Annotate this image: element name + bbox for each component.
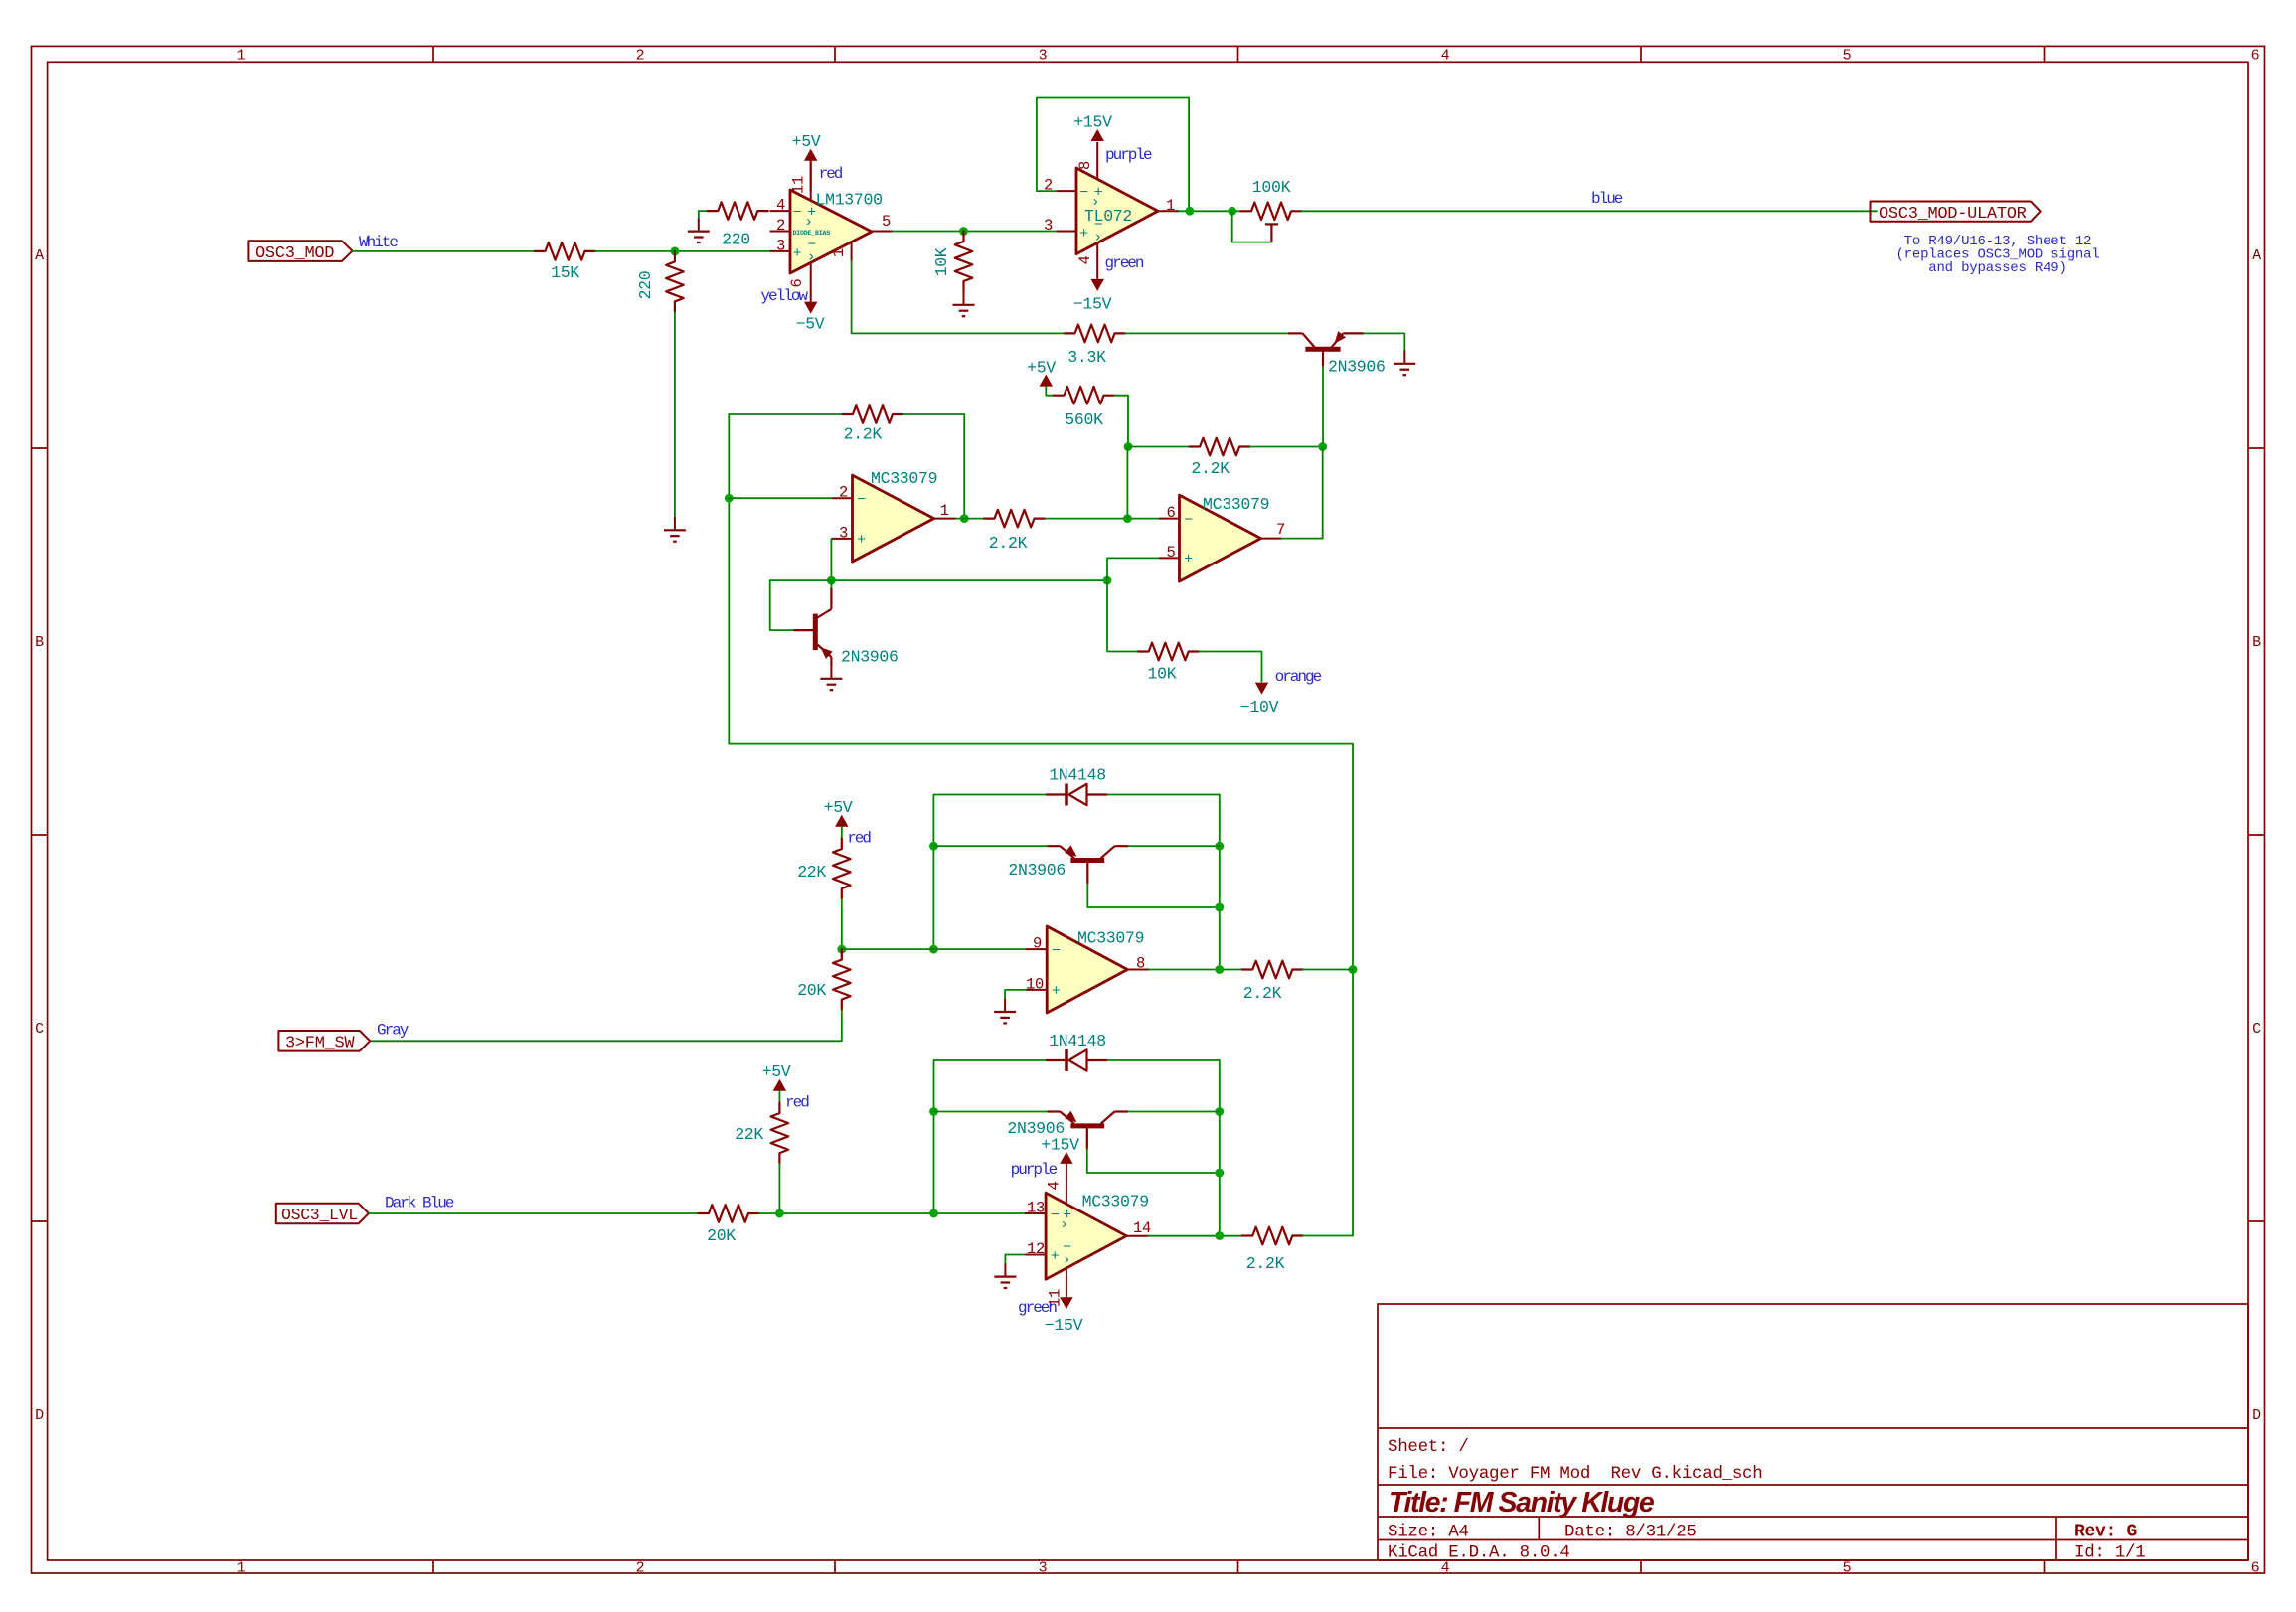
TL072 name bbox=[1084, 207, 1132, 226]
ground at Q1 emitter bbox=[1394, 351, 1415, 376]
svg-text:›: › bbox=[1060, 1216, 1068, 1233]
wire LM13700 pin1 down bbox=[852, 261, 1065, 334]
svg-text:3>FM_SW: 3>FM_SW bbox=[285, 1034, 355, 1052]
svg-text:8: 8 bbox=[1136, 955, 1145, 973]
net label green a bbox=[1105, 254, 1144, 272]
svg-text:+: + bbox=[1184, 552, 1193, 568]
svg-text:B: B bbox=[35, 634, 44, 651]
resistor R3.3K bbox=[1065, 325, 1125, 343]
wire R20Kb to junction bbox=[759, 1212, 1027, 1214]
svg-text:3: 3 bbox=[1039, 1560, 1048, 1577]
svg-text:220: 220 bbox=[722, 231, 750, 249]
wire U2B pin5 riser bbox=[1107, 558, 1159, 580]
svg-text:1: 1 bbox=[940, 502, 949, 520]
node junction 560K-2.2K bbox=[1124, 442, 1133, 451]
svg-text:1N4148: 1N4148 bbox=[1049, 766, 1106, 785]
svg-text:+: + bbox=[1052, 983, 1061, 1000]
svg-text:8: 8 bbox=[1076, 161, 1094, 170]
U3A pin stubs bbox=[1026, 949, 1149, 990]
resistor R10K vertical bbox=[955, 232, 973, 292]
svg-text:blue: blue bbox=[1591, 190, 1623, 208]
svg-text:−: − bbox=[1051, 1207, 1060, 1223]
svg-text:and bypasses R49): and bypasses R49) bbox=[1928, 260, 2066, 276]
svg-text:Dark Blue: Dark Blue bbox=[385, 1195, 454, 1212]
wire Q1 emitter to ground bbox=[1364, 333, 1404, 350]
svg-text:10K: 10K bbox=[1147, 664, 1176, 683]
power +15V at U3B pin4 bbox=[1060, 1152, 1072, 1204]
wire D2 right riser bbox=[1219, 1060, 1221, 1236]
svg-text:2: 2 bbox=[776, 217, 785, 235]
power -15V at TL072 pin4 bbox=[1091, 279, 1104, 291]
wire +5V to R560K bbox=[1046, 387, 1054, 396]
U2B input marks bbox=[1184, 512, 1193, 568]
ground at Q2 emitter bbox=[820, 666, 842, 691]
svg-text:15K: 15K bbox=[551, 263, 579, 282]
U2B name bbox=[1203, 495, 1269, 514]
TL072 pin stubs bbox=[1057, 142, 1179, 279]
svg-text:+5V: +5V bbox=[1027, 359, 1056, 378]
U3B pin stubs bbox=[1025, 1213, 1148, 1297]
wire D1 row bbox=[933, 794, 1219, 796]
resistor R2.2Ka bbox=[843, 405, 903, 423]
svg-text:green: green bbox=[1018, 1299, 1057, 1317]
net label purple a bbox=[1105, 146, 1152, 164]
op-amp U1 TL072 body bbox=[1076, 168, 1158, 254]
wire pin3 row right bbox=[831, 579, 1107, 581]
svg-text:3: 3 bbox=[776, 237, 785, 254]
ground at U3B pin12 bbox=[994, 1263, 1016, 1288]
net label Gray bbox=[377, 1022, 410, 1040]
power +5V at 22Kb bbox=[773, 1079, 786, 1091]
wire R22Ka to junction bbox=[841, 899, 843, 950]
node junction right column bbox=[1349, 965, 1358, 974]
wire bottom feedback rail bbox=[729, 744, 1353, 1236]
svg-text:20K: 20K bbox=[707, 1226, 736, 1245]
svg-text:3: 3 bbox=[1039, 48, 1048, 65]
wire Q1 base down bbox=[1322, 367, 1324, 447]
wire R2.2Kc to U2B pin6 bbox=[1045, 518, 1159, 520]
U2A pin stubs bbox=[832, 498, 956, 539]
power +5V at 560K bbox=[1040, 375, 1053, 387]
wire R560K to junction bbox=[1114, 396, 1128, 447]
node junction Q4 emitter row L bbox=[929, 1107, 938, 1116]
svg-text:C: C bbox=[2252, 1021, 2261, 1038]
svg-text:+15V: +15V bbox=[1073, 112, 1112, 131]
ground at U3A pin10 bbox=[994, 999, 1016, 1024]
node junction at 10K tap bbox=[959, 227, 968, 236]
node junction at 220 tap bbox=[671, 247, 680, 256]
wire +5V to R22Kb bbox=[778, 1091, 780, 1103]
svg-text:MC33079: MC33079 bbox=[1082, 1193, 1149, 1211]
svg-text:11: 11 bbox=[790, 176, 808, 194]
node junction Q3 emitter row R bbox=[1215, 842, 1224, 851]
op-amp U3B MC33079 body bbox=[1046, 1193, 1126, 1279]
value 20Kb bbox=[707, 1226, 736, 1245]
svg-text:+: + bbox=[1051, 1248, 1060, 1265]
resistor R220 vertical bbox=[666, 251, 684, 312]
net label Dark Blue bbox=[385, 1195, 454, 1212]
svg-text:7: 7 bbox=[1276, 521, 1285, 539]
svg-text:−5V: −5V bbox=[796, 315, 825, 334]
wire Q2 collector up bbox=[830, 580, 832, 588]
wire U3A pin10 to ground bbox=[1005, 990, 1026, 999]
svg-text:+5V: +5V bbox=[792, 132, 821, 151]
transistor Q4 2N3906 bbox=[1048, 1111, 1128, 1150]
wire mid column up bbox=[1126, 447, 1128, 519]
svg-text:orange: orange bbox=[1275, 668, 1322, 686]
svg-text:D: D bbox=[35, 1407, 44, 1424]
power label +5V b bbox=[1027, 359, 1056, 378]
svg-text:2: 2 bbox=[636, 48, 645, 65]
frame row letters bbox=[35, 247, 2261, 1424]
U2A input marks bbox=[857, 492, 866, 550]
title block kicad text bbox=[1388, 1543, 1570, 1563]
wire Q4 emitter row bbox=[934, 1111, 1220, 1113]
wire R2.2Kb to Q1 base column bbox=[1250, 446, 1323, 448]
power label +15V b bbox=[1041, 1136, 1079, 1155]
wire U2B output to column bbox=[1282, 538, 1323, 540]
wire junction to R2.2Kb bbox=[1128, 446, 1190, 448]
svg-text:red: red bbox=[819, 165, 843, 183]
svg-text:red: red bbox=[785, 1094, 809, 1112]
U3B name bbox=[1082, 1193, 1149, 1211]
value 560K bbox=[1065, 410, 1103, 429]
net label red b bbox=[847, 830, 871, 848]
svg-text:MC33079: MC33079 bbox=[1077, 929, 1144, 948]
wire D1 left riser bbox=[932, 795, 934, 950]
svg-text:2N3906: 2N3906 bbox=[1328, 358, 1386, 377]
value 2.2Kd bbox=[1243, 984, 1282, 1003]
title block file text bbox=[1388, 1464, 1762, 1484]
node junction U2A output bbox=[960, 514, 969, 523]
svg-text:A: A bbox=[2252, 247, 2261, 264]
Q2 name 2N3906 bbox=[841, 648, 899, 667]
transistor Q2 2N3906 bbox=[793, 588, 832, 666]
node junction pin13 row bbox=[929, 1209, 938, 1218]
title text FM Sanity Kluge bbox=[1389, 1487, 1655, 1519]
svg-text:−: − bbox=[857, 492, 866, 509]
svg-text:1N4148: 1N4148 bbox=[1049, 1032, 1106, 1050]
ground below R10K bbox=[953, 292, 975, 317]
svg-text:MC33079: MC33079 bbox=[1203, 495, 1269, 514]
svg-text:2.2K: 2.2K bbox=[1191, 459, 1230, 478]
node junction 22Kb bbox=[775, 1209, 784, 1218]
svg-text:yellow: yellow bbox=[760, 287, 808, 305]
power -15V at U3B pin11 bbox=[1060, 1297, 1072, 1309]
title block date text bbox=[1564, 1523, 1697, 1542]
svg-text:White: White bbox=[359, 234, 398, 251]
wire R2.2Ke to column bbox=[1303, 1235, 1353, 1237]
wire TL072 feedback loop bbox=[1037, 98, 1189, 212]
svg-text:20K: 20K bbox=[797, 981, 826, 1000]
hierarchical label OSC3_MOD-ULATOR bbox=[1871, 202, 2041, 224]
net label red a bbox=[819, 165, 843, 183]
svg-text:22K: 22K bbox=[797, 863, 826, 882]
op-amp U2B MC33079 body bbox=[1180, 495, 1261, 581]
wire ground to R220b bbox=[699, 210, 708, 212]
svg-text:9: 9 bbox=[1033, 935, 1042, 953]
svg-text:5: 5 bbox=[1166, 544, 1175, 562]
svg-text:›: › bbox=[807, 249, 816, 266]
U3B pin numbers bbox=[1027, 1181, 1151, 1307]
svg-text:+5V: +5V bbox=[762, 1062, 791, 1081]
potentiometer R100K bbox=[1241, 203, 1302, 242]
svg-text:220: 220 bbox=[636, 271, 655, 300]
U3B input/power marks bbox=[1051, 1207, 1071, 1268]
svg-text:5: 5 bbox=[1843, 1560, 1852, 1577]
svg-text:2: 2 bbox=[839, 484, 848, 502]
net label purple b bbox=[1011, 1161, 1058, 1179]
svg-text:OSC3_MOD: OSC3_MOD bbox=[255, 244, 334, 263]
power -5V at LM13700 pin6 bbox=[804, 302, 817, 314]
node junction U2A pin2 bbox=[725, 494, 734, 503]
value 2.2Ke bbox=[1246, 1254, 1285, 1273]
svg-text:3: 3 bbox=[839, 524, 848, 542]
node junction U2B pin5 tap bbox=[1103, 576, 1112, 585]
U2A name bbox=[871, 469, 937, 488]
power label +5V a bbox=[792, 132, 821, 151]
svg-text:MC33079: MC33079 bbox=[871, 469, 937, 488]
power label -15V b bbox=[1045, 1316, 1083, 1335]
svg-text:6: 6 bbox=[2251, 1560, 2260, 1577]
wire Q3 base row bbox=[1087, 884, 1220, 907]
node junction U3B out bbox=[1215, 1231, 1224, 1240]
node junction U3A out bbox=[1215, 965, 1224, 974]
power label +15V a bbox=[1073, 112, 1112, 131]
wire U2A out to R2.2Kc bbox=[956, 518, 984, 520]
net label White bbox=[359, 234, 398, 251]
wire junction to U2A pin2 bbox=[729, 497, 832, 499]
LM13700 DIODE_BIAS text bbox=[793, 230, 831, 237]
svg-text:2N3906: 2N3906 bbox=[1008, 861, 1066, 880]
value 20Ka bbox=[797, 981, 826, 1000]
wire R2.2Kd to column bbox=[1303, 969, 1353, 971]
value 2.2Kc bbox=[989, 534, 1028, 553]
value 15K bbox=[551, 263, 579, 282]
Q4 name 2N3906 bbox=[1007, 1119, 1065, 1138]
svg-text:−: − bbox=[1079, 185, 1088, 202]
node junction pin9 row bbox=[929, 945, 938, 954]
svg-text:›: › bbox=[1063, 1251, 1071, 1268]
svg-text:D: D bbox=[2252, 1407, 2261, 1424]
resistor R22Kb bbox=[771, 1103, 789, 1164]
value 10Kb bbox=[1147, 664, 1176, 683]
wire R15K to LM13700 pin3 bbox=[595, 250, 770, 252]
value 2.2Ka bbox=[844, 425, 883, 444]
resistor R2.2Kb bbox=[1190, 438, 1250, 456]
svg-text:KiCad E.D.A. 8.0.4: KiCad E.D.A. 8.0.4 bbox=[1388, 1543, 1570, 1563]
wire OSC3_MOD to R15K bbox=[353, 250, 536, 252]
svg-text:Gray: Gray bbox=[377, 1022, 410, 1040]
U3A pin numbers bbox=[1026, 935, 1145, 994]
node junction Q4 base bbox=[1215, 1169, 1224, 1178]
svg-text:5: 5 bbox=[1843, 48, 1852, 65]
wire pin5 tap down bbox=[1107, 580, 1138, 651]
LM13700 pin stubs bbox=[770, 161, 893, 302]
D2 name 1N4148 bbox=[1049, 1032, 1106, 1050]
svg-text:14: 14 bbox=[1133, 1219, 1151, 1237]
wire top feedback row bbox=[729, 413, 842, 415]
value 22Ka bbox=[797, 863, 826, 882]
svg-text:560K: 560K bbox=[1065, 410, 1103, 429]
svg-text:2: 2 bbox=[636, 1560, 645, 1577]
svg-text:purple: purple bbox=[1011, 1161, 1058, 1179]
LM13700 pin numbers bbox=[776, 176, 891, 288]
node junction mid column bbox=[1123, 514, 1132, 523]
wire R2.2Ka to output column bbox=[903, 414, 965, 519]
wire pin3 row left bbox=[770, 579, 832, 581]
value 220b bbox=[722, 231, 750, 249]
svg-text:−: − bbox=[1184, 512, 1193, 529]
wire R20Ka to FM_SW bbox=[370, 1010, 842, 1041]
svg-text:−15V: −15V bbox=[1045, 1316, 1083, 1335]
svg-text:−: − bbox=[1052, 942, 1061, 959]
svg-text:−10V: −10V bbox=[1240, 698, 1279, 717]
power label +5V d bbox=[762, 1062, 791, 1081]
LM13700 name bbox=[816, 191, 883, 210]
power label -10V bbox=[1240, 698, 1279, 717]
resistor R20Ka bbox=[833, 949, 851, 1010]
svg-text:2.2K: 2.2K bbox=[1246, 1254, 1285, 1273]
U2A pin numbers bbox=[839, 484, 949, 543]
wire pin9 row bbox=[842, 948, 1026, 950]
svg-text:1: 1 bbox=[237, 48, 246, 65]
wire Q3 emitter row bbox=[933, 845, 1219, 847]
value 220 vertical bbox=[636, 271, 655, 300]
hierarchical label OSC3_MOD bbox=[248, 241, 352, 262]
wire U3A output bbox=[1149, 969, 1242, 971]
value 22Kb bbox=[735, 1125, 763, 1144]
svg-text:2.2K: 2.2K bbox=[989, 534, 1028, 553]
note text sheet12 bbox=[1895, 234, 2099, 276]
svg-text:Rev: G: Rev: G bbox=[2074, 1523, 2137, 1542]
wire +5V to R22Ka bbox=[841, 827, 843, 839]
net label orange bbox=[1275, 668, 1322, 686]
net label red c bbox=[785, 1094, 809, 1112]
power label -5V bbox=[796, 315, 825, 334]
svg-text:5: 5 bbox=[882, 213, 891, 231]
svg-text:10K: 10K bbox=[932, 247, 951, 276]
node junction 22K-20K bbox=[837, 945, 846, 954]
U2B pin numbers bbox=[1166, 504, 1285, 562]
power label -15V a bbox=[1073, 295, 1112, 314]
LM13700 input/power marks bbox=[793, 205, 817, 266]
op-amp U2A MC33079 body bbox=[853, 475, 934, 562]
net label green b bbox=[1018, 1299, 1057, 1317]
svg-text:3.3K: 3.3K bbox=[1067, 348, 1106, 367]
wire D2 row bbox=[934, 1059, 1220, 1061]
svg-text:4: 4 bbox=[1046, 1181, 1064, 1190]
svg-text:›: › bbox=[1093, 230, 1102, 246]
svg-text:+5V: +5V bbox=[824, 798, 853, 817]
svg-text:+15V: +15V bbox=[1041, 1136, 1079, 1155]
hierarchical label OSC3_LVL bbox=[276, 1204, 369, 1224]
U2B pin stubs bbox=[1159, 519, 1282, 559]
svg-text:10: 10 bbox=[1026, 975, 1044, 993]
wire TL072 output bbox=[1179, 210, 1240, 212]
svg-text:100K: 100K bbox=[1252, 178, 1291, 197]
Q1 name 2N3906 bbox=[1328, 358, 1386, 377]
resistor R20Kb bbox=[699, 1205, 759, 1222]
svg-text:−: − bbox=[793, 205, 802, 222]
svg-text:B: B bbox=[2252, 634, 2261, 651]
net label blue bbox=[1591, 190, 1623, 208]
wire LM13700 pin5 to TL072 pin3 bbox=[893, 231, 1057, 233]
Q3 name 2N3906 bbox=[1008, 861, 1066, 880]
hierarchical label 3>FM_SW bbox=[278, 1031, 370, 1052]
svg-text:2.2K: 2.2K bbox=[844, 425, 883, 444]
svg-text:4: 4 bbox=[776, 197, 785, 215]
resistor R22Ka bbox=[833, 839, 851, 899]
value 3.3K bbox=[1067, 348, 1106, 367]
value 100K bbox=[1252, 178, 1291, 197]
svg-text:red: red bbox=[847, 830, 871, 848]
node junction Q3 emitter row L bbox=[929, 842, 938, 851]
title block size text bbox=[1388, 1523, 1469, 1542]
op-amp U-LM13700 body bbox=[790, 190, 872, 273]
ground at R220b input bbox=[688, 211, 710, 242]
svg-text:OSC3_LVL: OSC3_LVL bbox=[281, 1206, 358, 1224]
node junction pin3 row bbox=[827, 576, 836, 585]
node junction feedback bbox=[1186, 207, 1195, 216]
svg-text:1: 1 bbox=[237, 1560, 246, 1577]
title block id text bbox=[2074, 1543, 2145, 1563]
svg-text:purple: purple bbox=[1105, 146, 1152, 164]
TL072 pin numbers bbox=[1044, 161, 1175, 265]
svg-text:Title: FM Sanity Kluge: Title: FM Sanity Kluge bbox=[1389, 1487, 1655, 1519]
svg-text:4: 4 bbox=[1076, 255, 1094, 264]
wire D1 right riser bbox=[1219, 795, 1221, 970]
wire U2A feedback column bbox=[728, 414, 730, 744]
diode D1 1N4148 bbox=[1046, 784, 1107, 806]
svg-text:green: green bbox=[1105, 254, 1144, 272]
power +5V at 22K bbox=[835, 815, 848, 827]
wire U3B pin12 to ground bbox=[1005, 1255, 1025, 1264]
node junction Q4 emitter row R bbox=[1215, 1107, 1224, 1116]
U3A name bbox=[1077, 929, 1144, 948]
node junction Q3 base bbox=[1215, 903, 1224, 912]
wire OSC3_LVL to R20Kb bbox=[369, 1212, 699, 1214]
svg-text:LM13700: LM13700 bbox=[816, 191, 883, 210]
svg-text:12: 12 bbox=[1027, 1240, 1045, 1258]
value 10K vertical bbox=[932, 247, 951, 276]
wire R220 to ground bbox=[674, 312, 676, 517]
power +15V at TL072 pin8 bbox=[1091, 129, 1104, 141]
title block outline bbox=[1378, 1304, 2248, 1560]
wire pot wiper loop bbox=[1232, 211, 1272, 242]
wire Q4 base row bbox=[1087, 1149, 1220, 1173]
net label yellow bbox=[760, 287, 808, 305]
resistor R2.2Kc bbox=[984, 510, 1045, 528]
svg-text:+: + bbox=[1079, 226, 1088, 242]
wire R3.3K to Q1 base bbox=[1125, 332, 1288, 334]
wire R10Kb to -10V bbox=[1199, 652, 1261, 682]
node junction Q1 base bbox=[1318, 442, 1327, 451]
svg-text:+: + bbox=[857, 532, 866, 549]
svg-text:Size: A4: Size: A4 bbox=[1388, 1523, 1469, 1542]
svg-text:−15V: −15V bbox=[1073, 295, 1112, 314]
svg-text:File: Voyager FM Mod Rev G.ki: File: Voyager FM Mod Rev G.kicad_sch bbox=[1388, 1464, 1762, 1484]
op-amp U3A MC33079 body bbox=[1047, 926, 1127, 1013]
wire U3B output bbox=[1148, 1235, 1242, 1237]
svg-text:13: 13 bbox=[1027, 1200, 1045, 1217]
wire R22Kb to junction bbox=[778, 1164, 780, 1213]
title block sheet text bbox=[1388, 1437, 1469, 1457]
TL072 input/power marks bbox=[1079, 185, 1103, 246]
svg-text:4: 4 bbox=[1441, 48, 1450, 65]
title block rev text bbox=[2074, 1523, 2137, 1542]
svg-text:1: 1 bbox=[1166, 197, 1175, 215]
